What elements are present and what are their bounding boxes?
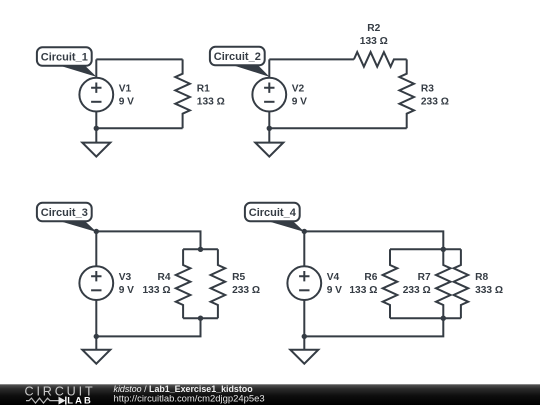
svg-text:9 V: 9 V [119, 96, 134, 107]
label V2 9V [292, 83, 307, 107]
footer url line [114, 394, 265, 405]
wire top circuit1 [96, 58, 182, 60]
svg-text:http://circuitlab.com/cm2djgp2: http://circuitlab.com/cm2djgp24p5e3 [114, 394, 265, 405]
svg-text:233 Ω: 233 Ω [421, 96, 449, 107]
logo CIRCUIT text [25, 385, 96, 399]
junction dot parallel bottom circuit3 [198, 316, 203, 321]
svg-text:V4: V4 [327, 272, 340, 283]
label R2 133 Ohm [360, 23, 388, 47]
svg-text:133 Ω: 133 Ω [197, 96, 225, 107]
wire V2 bottom stub [268, 112, 270, 129]
svg-text:V1: V1 [119, 83, 132, 94]
ground circuit4 [290, 350, 318, 364]
svg-text:R4: R4 [157, 272, 170, 283]
callout Circuit_2 [210, 47, 270, 77]
label V1 9V [119, 83, 134, 107]
wire ground stub circuit2 [268, 128, 270, 142]
resistor R7 [436, 249, 451, 318]
wire bottom circuit1 [96, 127, 182, 129]
svg-text:kidstoo / Lab1_Exercise1_kidst: kidstoo / Lab1_Exercise1_kidstoo [114, 384, 254, 394]
svg-text:Circuit_3: Circuit_3 [41, 207, 88, 219]
label V3 9V [119, 272, 134, 296]
wire parallel top bar circuit4 [390, 248, 461, 250]
label V4 9V [327, 272, 342, 296]
svg-text:9 V: 9 V [119, 285, 134, 296]
ground circuit2 [255, 143, 283, 157]
svg-text:R2: R2 [367, 23, 380, 34]
svg-text:R8: R8 [475, 272, 488, 283]
svg-text:Circuit_4: Circuit_4 [249, 207, 297, 219]
node A1 (V1 top) [95, 59, 97, 77]
svg-text:R1: R1 [197, 83, 210, 94]
wire V3 top stub [95, 231, 97, 266]
wire parallel bottom bar circuit3 [183, 317, 218, 319]
label R7 233 Ohm [403, 272, 431, 296]
wire V4 bottom stub [303, 300, 305, 336]
ground circuit1 [82, 143, 110, 157]
resistor R1 [175, 59, 190, 128]
footer bar [0, 384, 540, 405]
svg-text:Circuit_2: Circuit_2 [214, 51, 261, 63]
svg-text:R3: R3 [421, 83, 434, 94]
svg-text:9 V: 9 V [327, 285, 342, 296]
wire V3 bottom stub [95, 300, 97, 336]
node top-left circuit3 [94, 229, 99, 234]
wire R2 to R3 [406, 58, 408, 60]
label R1 133 Ohm [197, 83, 225, 107]
resistor R2 [354, 52, 407, 67]
resistor R8 [454, 249, 469, 318]
logo LAB text [67, 395, 93, 405]
resistor R5 [211, 249, 226, 318]
svg-text:V3: V3 [119, 272, 132, 283]
svg-text:R6: R6 [364, 272, 377, 283]
voltage source V4 [287, 266, 321, 300]
svg-text:233 Ω: 233 Ω [232, 285, 260, 296]
voltage source V3 [79, 266, 113, 300]
voltage source V2 [252, 78, 286, 112]
svg-text:V2: V2 [292, 83, 305, 94]
svg-text:233 Ω: 233 Ω [403, 285, 431, 296]
wire V2 to R2 [269, 58, 354, 60]
label R5 233 Ohm [232, 272, 260, 296]
junction dot parallel top circuit3 [198, 247, 203, 252]
voltage source V1 [79, 78, 113, 112]
svg-text:R5: R5 [232, 272, 245, 283]
label R3 233 Ohm [421, 83, 449, 107]
callout Circuit_4 [245, 203, 305, 232]
wire ground stub circuit3 [95, 336, 97, 349]
callout Circuit_1 [37, 47, 97, 77]
svg-text:LAB: LAB [67, 395, 93, 405]
junction dot circuit2 [267, 126, 272, 131]
wire bottom circuit2 [269, 127, 406, 129]
wire parallel to bottom circuit4 [304, 318, 443, 336]
node A2 (V2 top) [268, 59, 270, 77]
wire top circuit4 [304, 231, 443, 249]
svg-text:133 Ω: 133 Ω [349, 285, 377, 296]
svg-text:9 V: 9 V [292, 96, 307, 107]
wire parallel top bar circuit3 [183, 248, 218, 250]
wire ground stub circuit4 [303, 336, 305, 349]
callout Circuit_3 [37, 203, 97, 232]
wire parallel bottom bar circuit4 [390, 317, 461, 319]
junction dot parallel bottom circuit4 [441, 316, 446, 321]
label R4 133 Ohm [143, 272, 171, 296]
wire V1 bottom stub [95, 112, 97, 129]
logo resistor-diode symbol [26, 397, 66, 405]
junction dot parallel top circuit4 [441, 247, 446, 252]
resistor R6 [383, 249, 398, 318]
svg-text:R7: R7 [418, 272, 431, 283]
wire V4 top stub [303, 231, 305, 266]
svg-text:Circuit_1: Circuit_1 [41, 52, 88, 64]
label R8 333 Ohm [475, 272, 503, 296]
wire top circuit3 [96, 231, 200, 249]
footer title line [114, 384, 254, 394]
junction dot circuit1 [94, 126, 99, 131]
svg-text:133 Ω: 133 Ω [143, 285, 171, 296]
label R6 133 Ohm [349, 272, 377, 296]
resistor R4 [176, 249, 191, 318]
svg-text:133 Ω: 133 Ω [360, 36, 388, 47]
svg-text:333 Ω: 333 Ω [475, 285, 503, 296]
wire ground stub circuit1 [95, 128, 97, 142]
wire parallel to bottom circuit3 [96, 318, 200, 336]
resistor R3 [399, 59, 414, 128]
node top-left circuit4 [302, 229, 307, 234]
junction dot circuit4 [302, 334, 307, 339]
junction dot circuit3 [94, 334, 99, 339]
ground circuit3 [82, 350, 110, 364]
